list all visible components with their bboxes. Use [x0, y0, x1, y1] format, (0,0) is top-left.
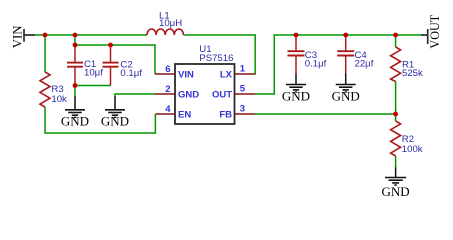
svg-text:5: 5: [240, 84, 246, 95]
svg-text:0.1μf: 0.1μf: [120, 68, 142, 79]
svg-text:10μH: 10μH: [159, 18, 182, 29]
pin 6 VIN stub: [155, 73, 175, 75]
junction node C4: [343, 33, 348, 38]
resistor R3: [40, 72, 50, 107]
svg-text:GND: GND: [178, 90, 199, 101]
svg-text:GND: GND: [332, 88, 360, 103]
svg-text:VIN: VIN: [178, 70, 194, 81]
junction node C1 top: [73, 43, 78, 48]
svg-text:OUT: OUT: [212, 90, 232, 101]
resistor R1: [391, 47, 401, 82]
ground under C1: [65, 97, 85, 118]
junction node C1 bottom: [73, 83, 78, 88]
svg-text:0.1μf: 0.1μf: [305, 58, 327, 69]
op-amp U1 box: [175, 64, 235, 124]
pin 2 GND stub: [155, 93, 175, 95]
svg-text:10μf: 10μf: [84, 68, 103, 79]
junction node VIN/R3: [43, 33, 48, 38]
junction node R1 top: [393, 33, 398, 38]
ground under C3: [286, 74, 306, 93]
svg-text:1: 1: [240, 64, 246, 75]
svg-text:4: 4: [165, 104, 171, 115]
inductor L1: [147, 29, 183, 35]
svg-text:3: 3: [240, 104, 245, 115]
svg-text:22μf: 22μf: [355, 58, 374, 69]
svg-text:FB: FB: [219, 110, 232, 121]
junction node C2 top: [108, 43, 113, 48]
svg-text:GND: GND: [101, 114, 129, 129]
svg-text:GND: GND: [61, 114, 89, 129]
pin 4 EN stub: [155, 113, 175, 115]
port VOUT: [421, 29, 428, 44]
svg-text:525k: 525k: [402, 68, 423, 79]
capacitor C3: [288, 35, 305, 74]
svg-text:VOUT: VOUT: [428, 14, 442, 48]
ground under R2: [385, 168, 406, 186]
ground under C4: [336, 74, 356, 93]
wire VIN rail top: [35, 35, 421, 168]
svg-text:GND: GND: [382, 184, 410, 199]
junction node FB: [393, 112, 398, 117]
port VIN: [24, 29, 36, 42]
svg-text:2: 2: [165, 84, 170, 95]
ground at pin 2: [105, 97, 125, 118]
svg-text:6: 6: [165, 64, 170, 75]
junction node VIN/C1: [73, 33, 78, 38]
svg-text:GND: GND: [282, 88, 310, 103]
capacitor C1: [67, 45, 83, 86]
resistor R2: [391, 121, 401, 156]
svg-text:VIN: VIN: [11, 25, 25, 48]
capacitor C2: [103, 45, 119, 86]
svg-text:PS7516: PS7516: [199, 53, 233, 64]
pin 3 FB stub: [235, 113, 256, 115]
svg-text:10k: 10k: [51, 94, 67, 105]
junction node C3: [294, 33, 299, 38]
capacitor C4: [337, 35, 354, 74]
svg-text:100k: 100k: [402, 144, 423, 155]
pin 1 LX stub: [235, 73, 256, 75]
svg-text:LX: LX: [220, 70, 233, 81]
pin 5 OUT stub: [235, 93, 256, 95]
svg-text:EN: EN: [178, 110, 191, 121]
